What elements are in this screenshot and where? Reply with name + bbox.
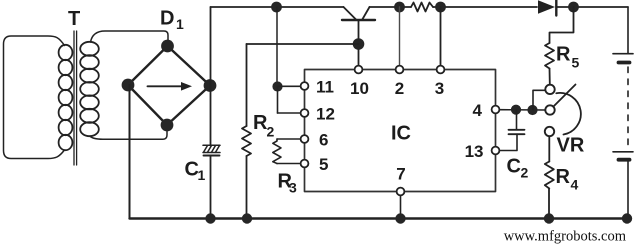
transistor Q1 base bar	[342, 19, 375, 21]
node rail battery	[622, 213, 632, 223]
node bridge right	[204, 79, 217, 92]
wire secondary top to bridge top node	[91, 31, 169, 46]
svg-text:T: T	[68, 8, 80, 30]
node bridge top	[161, 40, 174, 53]
bridge arrow	[148, 85, 183, 87]
svg-text:C: C	[507, 156, 521, 178]
node rail R2	[242, 213, 252, 223]
capacitor C1	[203, 145, 220, 152]
svg-text:2: 2	[395, 79, 404, 98]
svg-text:12: 12	[316, 105, 335, 124]
svg-text:13: 13	[465, 142, 484, 161]
IC pin 6 terminal	[301, 135, 309, 143]
wire bridge right node up to +rail	[210, 7, 212, 86]
IC pin 11 terminal	[301, 82, 309, 90]
node rail pin3	[435, 2, 446, 13]
svg-text:4: 4	[571, 177, 579, 193]
wire bridge left node down to ground rail	[129, 85, 131, 219]
wire C1 to ground rail	[210, 156, 212, 219]
svg-text:www.mfgrobots.com: www.mfgrobots.com	[504, 229, 627, 244]
wire rail to pins 11-12	[276, 7, 278, 87]
IC pin 5 terminal	[301, 160, 309, 168]
node VR jog	[527, 105, 537, 115]
wire pin 7 to ground rail	[400, 196, 402, 218]
svg-text:3: 3	[289, 180, 297, 196]
node pins 11-12 tie	[272, 81, 282, 91]
svg-text:IC: IC	[391, 123, 411, 145]
resistor R3	[273, 139, 281, 164]
wire R5 to VR top	[549, 69, 551, 84]
node rail pin2	[394, 2, 405, 13]
wire tie to pin 12	[278, 112, 300, 114]
node bridge left	[122, 79, 135, 92]
+rail top left segment	[211, 6, 344, 8]
+rail segment to diode	[433, 6, 537, 8]
node base junction	[353, 38, 365, 50]
potentiometer VR terminal top	[545, 85, 554, 94]
svg-text:4: 4	[473, 101, 483, 120]
svg-text:11: 11	[316, 78, 334, 97]
node rail R5	[568, 2, 579, 13]
resistor R4	[545, 162, 554, 189]
wire VR bottom to R4	[548, 137, 550, 162]
transformer T primary winding	[59, 45, 73, 150]
potentiometer VR wiper arm	[554, 85, 575, 106]
svg-text:2: 2	[267, 124, 275, 140]
capacitor C2 lead bottom to pin 13	[500, 134, 517, 150]
potentiometer VR arc	[556, 93, 581, 135]
wire jog to R5	[550, 7, 574, 43]
svg-text:VR: VR	[557, 135, 585, 157]
wire R4 to ground rail	[548, 189, 550, 219]
IC U1 body	[305, 70, 496, 192]
IC pin 10 terminal	[355, 66, 363, 74]
ground rail	[130, 217, 629, 219]
wire tie down	[277, 87, 279, 114]
wire base to R2 top	[247, 43, 359, 45]
wire bridge right node down to C1	[210, 86, 212, 146]
resistor R2 lead top	[246, 44, 248, 126]
node C2 top	[511, 105, 521, 115]
wire pin 6 to R3	[277, 138, 300, 140]
wire pin2 vertical	[399, 7, 401, 65]
svg-text:1: 1	[176, 16, 184, 32]
resistor R2 lead bottom	[246, 156, 248, 219]
+rail segment diode to battery	[556, 6, 628, 8]
svg-text:R: R	[556, 166, 571, 188]
IC pin 13 terminal	[492, 147, 500, 155]
wire pin3 vertical	[440, 7, 442, 65]
wire R3 to pin 5	[277, 163, 300, 165]
wire tie to pin 11	[278, 85, 300, 87]
wire secondary bottom to bridge bottom node	[90, 125, 167, 139]
bridge rectifier D1 diamond	[128, 46, 210, 125]
battery B1 bottom lead	[627, 162, 629, 219]
svg-text:D: D	[160, 8, 174, 30]
transformer T primary loop wire	[4, 36, 65, 159]
transistor Q1 base lead	[358, 20, 360, 65]
node bridge bottom	[161, 119, 174, 132]
IC pin 2 terminal	[396, 66, 404, 74]
IC pin 3 terminal	[437, 66, 445, 74]
resistor R1 (horizontal)	[411, 3, 433, 12]
capacitor C2 lead top	[516, 110, 518, 130]
diode D2	[538, 0, 555, 13]
node rail R4	[544, 213, 554, 223]
potentiometer VR terminal bottom	[545, 127, 554, 136]
svg-text:R: R	[556, 44, 571, 66]
svg-text:6: 6	[319, 131, 328, 150]
svg-text:2: 2	[521, 165, 529, 181]
battery B1 plate short top	[619, 61, 630, 65]
resistor R2	[242, 126, 251, 156]
wire pin 4 to VR wiper	[500, 109, 544, 111]
+rail segment to resistor	[370, 6, 412, 8]
resistor R5	[545, 43, 554, 69]
svg-text:7: 7	[396, 165, 405, 184]
potentiometer VR terminal wiper	[545, 105, 554, 114]
svg-text:5: 5	[572, 55, 580, 71]
node rail pin7	[395, 213, 405, 223]
battery B1 plate long top	[613, 53, 633, 55]
transformer T secondary winding	[80, 42, 99, 136]
battery B1 dashed cells	[627, 67, 629, 148]
wire jog to VR top terminal	[533, 90, 545, 110]
svg-text:10: 10	[350, 79, 369, 98]
battery B1 top lead	[627, 7, 629, 53]
transistor Q1 emitter	[362, 7, 370, 20]
battery B1 plate long bottom	[613, 151, 633, 153]
transistor Q1 collector	[344, 7, 357, 20]
IC pin 12 terminal	[301, 109, 309, 117]
IC pin 7 terminal	[397, 188, 405, 196]
svg-text:1: 1	[198, 167, 206, 183]
svg-text:3: 3	[435, 79, 444, 98]
node rail C1	[205, 213, 215, 223]
IC pin 4 terminal	[492, 106, 500, 114]
transformer T core	[74, 31, 77, 165]
battery B1 plate short bottom	[619, 158, 630, 162]
capacitor C2	[509, 129, 525, 131]
node rail R2top	[271, 2, 282, 13]
svg-text:5: 5	[319, 155, 328, 174]
